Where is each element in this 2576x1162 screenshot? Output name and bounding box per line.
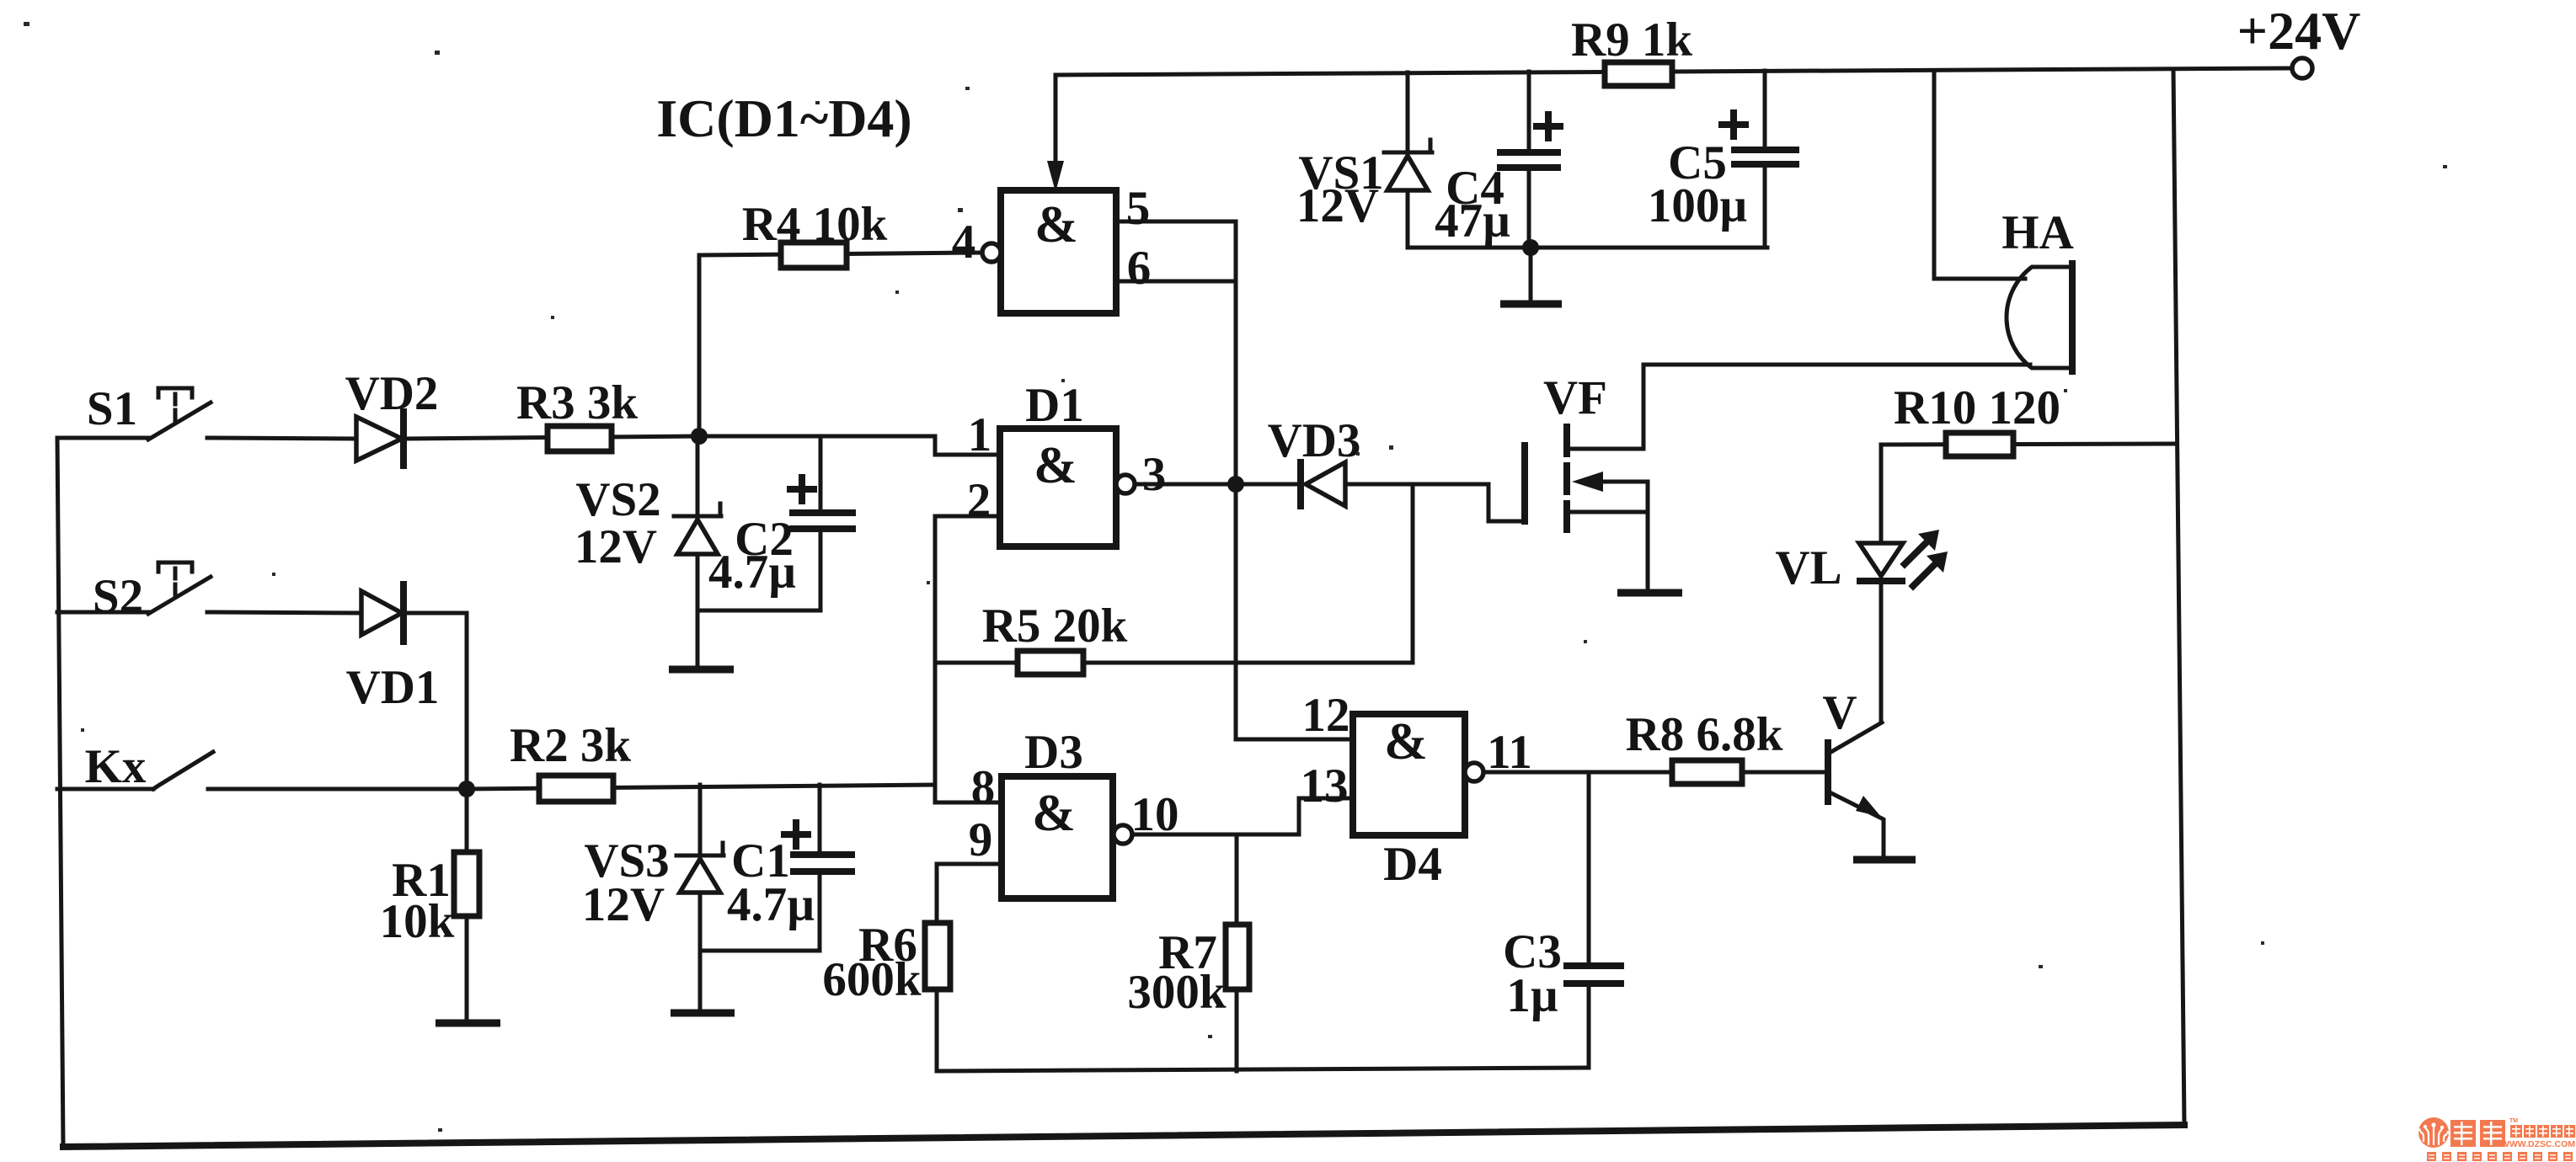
capacitor C4 <box>1500 72 1558 248</box>
svg-text:10k: 10k <box>380 895 455 948</box>
plus sign C5 <box>1722 113 1745 136</box>
capacitor C1 <box>700 785 852 951</box>
svg-text:&: & <box>1034 196 1078 253</box>
transistor VF (MOSFET) <box>1525 365 1648 589</box>
plus sign C1 <box>784 823 808 846</box>
resistor R3 <box>548 426 612 451</box>
svg-text:8: 8 <box>971 761 996 814</box>
diode VD1 <box>361 584 404 642</box>
pin D4.11 bubble <box>1465 763 1483 781</box>
node R3/R4/C2 junction <box>691 428 708 445</box>
watermark 专业电子元器件交易网站 row <box>2427 1152 2573 1161</box>
ground under C4 <box>1500 301 1562 308</box>
wire R6/R7/C3 bottom bus <box>937 1068 1589 1071</box>
svg-text:IC(D1~D4): IC(D1~D4) <box>656 88 911 148</box>
resistor R10 <box>1946 433 2013 456</box>
capacitor C5 <box>1734 71 1796 248</box>
svg-text:11: 11 <box>1487 726 1532 779</box>
svg-text:D4: D4 <box>1383 838 1442 891</box>
svg-text:S2: S2 <box>93 570 143 623</box>
gate D3 <box>1002 776 1113 898</box>
gate D4 <box>1353 714 1465 835</box>
wire S2 to VD1 <box>207 612 361 613</box>
svg-text:VS2: VS2 <box>575 473 660 526</box>
wire VD3 to VF gate <box>1345 484 1521 521</box>
svg-text:R3 3k: R3 3k <box>516 376 638 429</box>
wire VS1 drop <box>1406 72 1410 152</box>
svg-text:12V: 12V <box>582 878 665 931</box>
diode VD2 <box>356 412 404 466</box>
svg-text:VL: VL <box>1775 541 1841 594</box>
svg-text:D1: D1 <box>1025 379 1084 432</box>
ground under VS3 <box>671 1010 735 1017</box>
svg-text:D3: D3 <box>1024 726 1083 779</box>
LED VL <box>1859 543 1903 722</box>
svg-text:9: 9 <box>969 813 993 866</box>
ground under VF <box>1617 589 1682 597</box>
svg-text:4.7µ: 4.7µ <box>708 546 796 599</box>
wire gate node down to R5 <box>1411 484 1415 663</box>
node +24V terminal <box>2292 58 2312 78</box>
transistor V <box>1828 722 1884 856</box>
wire VD1 to Kx node <box>404 613 467 789</box>
svg-text:10: 10 <box>1131 788 1179 841</box>
wire VD2 to R3 <box>404 436 699 439</box>
svg-text:TM: TM <box>2509 1118 2518 1124</box>
wire S1 to VD2 <box>207 438 356 439</box>
wire junction up to R4 <box>699 253 981 436</box>
svg-text:4: 4 <box>952 216 976 269</box>
svg-text:12: 12 <box>1302 689 1350 742</box>
node pin3/VD3/D2out junction <box>1227 476 1244 493</box>
svg-text:R8 6.8k: R8 6.8k <box>1626 708 1783 761</box>
wire node to VD3 <box>1236 482 1298 487</box>
svg-text:3: 3 <box>1142 448 1167 501</box>
capacitor C2 <box>697 436 852 610</box>
resistor R5 <box>1018 651 1083 674</box>
svg-text:13: 13 <box>1301 760 1349 813</box>
wire D4 pin11 to R8 and V base <box>1483 770 1828 775</box>
wire R10 to VL <box>1879 445 1884 543</box>
switch S2 <box>57 562 211 614</box>
pin D3.10 bubble <box>1114 825 1132 844</box>
pin D1.3 bubble <box>1116 475 1135 493</box>
svg-text:100µ: 100µ <box>1648 179 1747 232</box>
wire IC power drop to D2 <box>1054 75 1058 165</box>
wire D2 outputs 5,6 tie and drop to node3/pin12 <box>1116 221 1353 739</box>
svg-text:WWW.DZSC.COM: WWW.DZSC.COM <box>2501 1139 2575 1149</box>
gate D2 <box>1001 190 1116 313</box>
svg-text:12V: 12V <box>575 520 657 573</box>
wire VF drain to HA <box>1643 363 2030 367</box>
svg-text:HA: HA <box>2001 206 2074 259</box>
buzzer HA <box>2007 264 2072 371</box>
wire R2 run to D3 input column <box>467 785 935 789</box>
plus sign C4 <box>1537 115 1560 138</box>
wire +24V top rail <box>1056 68 2292 75</box>
wire R7 column <box>1235 834 1239 1071</box>
watermark dzsc logo <box>2418 1117 2450 1148</box>
svg-text:R4 10k: R4 10k <box>742 198 888 251</box>
wire right supply rail <box>2173 69 2184 1125</box>
svg-text:V: V <box>1822 686 1857 739</box>
resistor R8 <box>1672 760 1742 784</box>
svg-text:S1: S1 <box>87 382 137 435</box>
wire HA to +24V <box>1934 71 2025 279</box>
svg-text:47µ: 47µ <box>1435 195 1510 248</box>
wire R4 to pin4 bubble <box>982 243 1001 262</box>
svg-text:+24V: +24V <box>2237 1 2361 61</box>
resistor R6 <box>925 923 950 989</box>
resistor R7 <box>1226 925 1249 989</box>
svg-text:4.7µ: 4.7µ <box>727 878 815 931</box>
resistor R4 <box>781 243 847 268</box>
ground under VS2 <box>669 666 734 674</box>
svg-text:5: 5 <box>1126 182 1151 235</box>
svg-text:12V: 12V <box>1296 179 1379 232</box>
wire R5 run <box>935 661 1413 665</box>
wire Kx to R2 <box>208 787 467 792</box>
wire D2 pin6 <box>1116 280 1236 284</box>
switch Kx <box>57 752 213 789</box>
watermark 维库 text <box>2450 1120 2505 1147</box>
watermark 电子市场网 text <box>2510 1125 2575 1138</box>
wire to ground under C4 <box>1529 248 1533 301</box>
svg-text:600k: 600k <box>822 953 922 1006</box>
svg-text:R2 3k: R2 3k <box>510 719 631 772</box>
wire D1 pin2 column (pin2-R5-R2-pin8) <box>935 516 1002 802</box>
node Kx/VD1/R1 junction <box>458 781 475 797</box>
wire bottom ground rail <box>63 1125 2184 1147</box>
zener VS3 <box>676 785 724 1010</box>
svg-text:&: & <box>1384 713 1428 770</box>
plus sign C2 <box>790 477 814 501</box>
resistor R2 <box>539 776 613 802</box>
LED VL emission arrows <box>1905 530 1948 586</box>
svg-text:VF: VF <box>1543 371 1607 424</box>
gate D1 <box>1000 429 1116 546</box>
wire D3 pin9 <box>937 864 1002 1071</box>
wire R10 run <box>1881 444 2173 445</box>
switch S1 <box>57 388 211 440</box>
svg-text:&: & <box>1034 437 1077 494</box>
wire D3 pin10 to D4 pin13 <box>1132 798 1353 834</box>
ground under V <box>1853 856 1916 864</box>
svg-text:Kx: Kx <box>85 740 147 793</box>
diode VD3 <box>1301 462 1345 506</box>
svg-text:VD2: VD2 <box>345 367 439 420</box>
zener VS1 <box>1384 140 1432 248</box>
zener VS2 <box>674 436 721 667</box>
svg-text:1µ: 1µ <box>1506 969 1558 1022</box>
arrow into gate D2 <box>1047 161 1064 192</box>
wire VS1/C4/C5 bottom bus <box>1408 246 1767 250</box>
wire D1 pin3 to node <box>1135 482 1236 487</box>
svg-text:2: 2 <box>967 474 991 527</box>
svg-text:&: & <box>1032 785 1076 842</box>
svg-text:6: 6 <box>1127 242 1152 295</box>
resistor R1 <box>454 789 479 1021</box>
resistor R9 <box>1605 62 1672 86</box>
svg-text:R9 1k: R9 1k <box>1571 13 1692 67</box>
wire left rail <box>57 438 63 1147</box>
svg-text:300k: 300k <box>1127 966 1227 1019</box>
svg-text:VD1: VD1 <box>346 661 440 714</box>
capacitor C3 <box>1567 772 1621 1068</box>
svg-text:R10 120: R10 120 <box>1894 381 2060 434</box>
wire junction to D1 pin1 <box>699 436 1000 455</box>
svg-text:R5 20k: R5 20k <box>982 600 1128 653</box>
node C4 junction <box>1522 239 1539 256</box>
svg-text:1: 1 <box>968 408 992 461</box>
ground under R1 <box>436 1020 500 1027</box>
svg-text:VD3: VD3 <box>1268 414 1361 467</box>
